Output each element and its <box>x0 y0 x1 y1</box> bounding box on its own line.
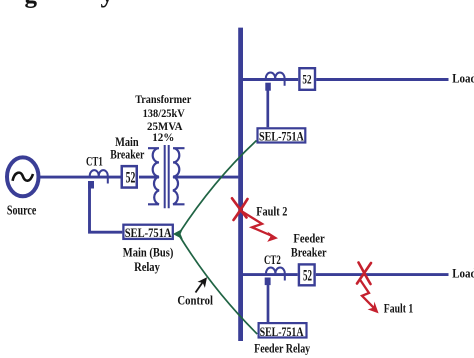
svg-text:52: 52 <box>126 168 136 186</box>
svg-text:SEL-751A: SEL-751A <box>259 130 304 145</box>
svg-text:Feeder: Feeder <box>293 232 324 246</box>
svg-text:138/25kV: 138/25kV <box>143 107 185 120</box>
svg-text:SEL-751A: SEL-751A <box>260 326 304 340</box>
svg-text:CT2: CT2 <box>264 253 281 267</box>
svg-text:y: y <box>101 0 115 8</box>
svg-text:Source: Source <box>7 202 37 218</box>
svg-text:Transformer: Transformer <box>135 93 191 106</box>
svg-text:Load: Load <box>452 267 474 281</box>
svg-text:Feeder Relay: Feeder Relay <box>254 341 310 356</box>
svg-text:52: 52 <box>303 267 312 284</box>
svg-text:Fault 1: Fault 1 <box>384 302 414 315</box>
svg-text:Main (Bus): Main (Bus) <box>123 247 174 260</box>
svg-text:Breaker: Breaker <box>110 148 144 162</box>
svg-text:Main: Main <box>115 135 139 149</box>
svg-text:Load: Load <box>452 72 474 86</box>
svg-text:52: 52 <box>302 73 311 87</box>
svg-text:Fault 2: Fault 2 <box>256 206 287 219</box>
svg-text:CT1: CT1 <box>86 155 103 169</box>
svg-text:Control: Control <box>177 293 213 308</box>
svg-text:12%: 12% <box>152 132 174 144</box>
svg-text:g: g <box>25 0 38 9</box>
svg-text:Relay: Relay <box>134 260 160 274</box>
svg-text:Breaker: Breaker <box>291 247 327 260</box>
svg-text:SEL-751A: SEL-751A <box>125 225 172 240</box>
